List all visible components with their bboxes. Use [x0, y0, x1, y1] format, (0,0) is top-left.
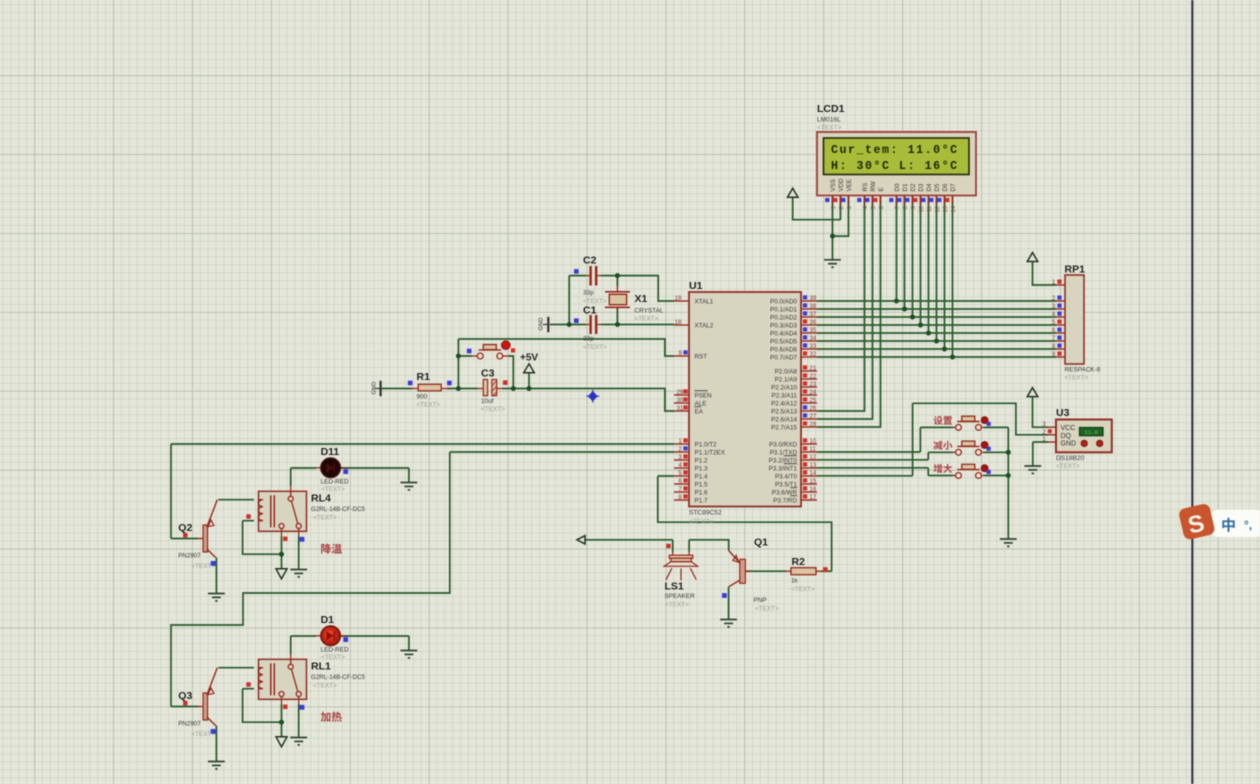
svg-text:P0.4/AD4: P0.4/AD4 — [770, 330, 797, 337]
svg-text:P0.7/AD7: P0.7/AD7 — [770, 354, 797, 361]
svg-text:27: 27 — [810, 414, 817, 420]
svg-text:PSEN: PSEN — [695, 392, 713, 399]
wire RP1 pin1 to power — [1033, 262, 1057, 285]
junction C1-crystal — [615, 322, 620, 327]
svg-text:P3.0/RXD: P3.0/RXD — [769, 441, 797, 448]
svg-text:VCC: VCC — [1061, 425, 1076, 432]
wire terminal to LS1 left — [585, 540, 673, 552]
svg-text:26: 26 — [810, 406, 817, 412]
wire R2 right lead wire — [821, 570, 832, 572]
svg-text:P1.3: P1.3 — [695, 465, 708, 472]
svg-text:C1: C1 — [583, 305, 597, 317]
svg-text:30: 30 — [677, 398, 684, 404]
svg-text:12: 12 — [810, 455, 817, 461]
svg-text:8: 8 — [903, 206, 909, 209]
GND terminal left of C1 — [539, 317, 550, 332]
svg-text:31: 31 — [677, 406, 684, 412]
svg-text:P1.5: P1.5 — [695, 481, 708, 488]
U1 right pin names — [769, 298, 798, 504]
wire RL4 common to D11 row — [290, 468, 292, 486]
svg-text:U1: U1 — [689, 280, 703, 292]
svg-text:EA: EA — [695, 408, 704, 415]
svg-text:D7: D7 — [950, 183, 957, 191]
svg-text:Q3: Q3 — [178, 690, 192, 702]
svg-text:24: 24 — [810, 390, 817, 396]
svg-text:<TEXT>: <TEXT> — [481, 406, 505, 413]
wire LCD E to P2.7 — [817, 196, 881, 427]
svg-text:7: 7 — [895, 206, 901, 209]
svg-text:11: 11 — [810, 447, 817, 453]
svg-text:<TEXT>: <TEXT> — [321, 654, 345, 661]
svg-text:PNP: PNP — [754, 597, 767, 604]
wire key1 to ground rail — [984, 427, 1008, 538]
svg-text:GND: GND — [539, 318, 545, 331]
wire P1.0 to Q2 base — [171, 444, 674, 539]
wire D1 row to ground — [291, 636, 409, 650]
svg-text:P1.0/T2: P1.0/T2 — [695, 441, 718, 448]
ground keypad rail ground — [1000, 539, 1017, 546]
svg-text:GND: GND — [372, 382, 378, 395]
svg-text:P2.7/A15: P2.7/A15 — [771, 424, 797, 431]
IC U1 STC89C52 body — [689, 280, 801, 526]
wire reset button row — [458, 356, 513, 389]
svg-text:VSS: VSS — [830, 179, 837, 191]
wire P3.2 to key2 — [817, 452, 953, 460]
ground Q3 emitter — [208, 762, 225, 769]
svg-text:C3: C3 — [481, 368, 495, 380]
svg-text:Q1: Q1 — [754, 537, 768, 549]
svg-text:10: 10 — [810, 439, 817, 445]
wire Q1 base to R2 — [746, 570, 786, 572]
transistor Q2 PN2907 (PNP) — [178, 500, 217, 570]
transistor Q1 PNP — [722, 537, 779, 613]
svg-text:LED-RED: LED-RED — [321, 647, 349, 654]
ground below RL4 — [290, 570, 307, 577]
watermark logo — [1178, 503, 1260, 541]
svg-text:15: 15 — [810, 479, 817, 485]
wire U3 VCC to power — [1033, 397, 1049, 427]
svg-text:RW: RW — [870, 181, 877, 191]
capacitor C2 — [574, 255, 607, 306]
junction P0.6/D6 — [942, 347, 947, 352]
svg-text:Q2: Q2 — [178, 522, 192, 534]
svg-text:21: 21 — [810, 366, 817, 372]
svg-text:LCD1: LCD1 — [817, 103, 845, 115]
svg-text:14: 14 — [951, 205, 957, 212]
U3 pins — [1042, 422, 1056, 443]
svg-text:P2.6/A14: P2.6/A14 — [771, 416, 797, 423]
wire RL4 contact to terminal — [281, 536, 283, 569]
svg-text:XTAL2: XTAL2 — [695, 322, 714, 329]
svg-text:DQ: DQ — [1061, 433, 1072, 440]
svg-text:16: 16 — [810, 487, 817, 493]
junction P0.2/D2 — [910, 315, 915, 320]
svg-text:STC89C52: STC89C52 — [689, 510, 722, 517]
svg-text:<TEXT>: <TEXT> — [689, 519, 714, 526]
junction P0.7/D7 — [950, 355, 955, 360]
svg-text:PN2907: PN2907 — [178, 721, 201, 728]
svg-text:5: 5 — [871, 206, 877, 209]
svg-text:CRYSTAL: CRYSTAL — [635, 308, 664, 315]
svg-text:36: 36 — [810, 320, 817, 326]
wire Q1 collector to ground — [728, 587, 730, 619]
svg-text:<TEXT>: <TEXT> — [817, 124, 842, 131]
svg-text:D3: D3 — [918, 183, 925, 191]
svg-text:<TEXT>: <TEXT> — [791, 586, 815, 593]
svg-text:D0: D0 — [894, 183, 901, 191]
wire LCD RS to P2.5 — [817, 196, 865, 411]
transistor Q3 PN2907 (PNP) — [178, 668, 217, 738]
svg-text:GND: GND — [1061, 441, 1077, 448]
svg-text:18: 18 — [675, 320, 682, 326]
svg-text:<TEXT>: <TEXT> — [417, 402, 441, 409]
junction P0.4/D4 — [926, 331, 931, 336]
LCD1 pin stubs and numbers — [825, 196, 957, 213]
+5V power terminal — [520, 353, 538, 373]
svg-text:XTAL1: XTAL1 — [695, 298, 714, 305]
push button SW set — [934, 416, 991, 430]
svg-text:P0.5/AD5: P0.5/AD5 — [770, 338, 797, 345]
wire P3.4 to U3 DQ — [817, 403, 1048, 476]
svg-text:P0.1/AD1: P0.1/AD1 — [770, 306, 797, 313]
svg-text:P0.2/AD2: P0.2/AD2 — [770, 314, 797, 321]
ground below LCD — [824, 260, 841, 267]
speaker LS1 — [664, 544, 697, 609]
resistor pack RP1 RESPACK-8 — [1065, 264, 1101, 382]
svg-text:35: 35 — [810, 328, 817, 334]
svg-text:17: 17 — [810, 495, 817, 501]
svg-text:37: 37 — [810, 312, 817, 318]
wire key2 right — [984, 451, 1008, 453]
svg-text:10uf: 10uf — [481, 398, 494, 405]
svg-text:1: 1 — [831, 206, 837, 209]
svg-text:P3.3/INT1: P3.3/INT1 — [769, 465, 798, 472]
push button (reset) — [467, 341, 515, 359]
wire Q3 emitter to ground — [215, 726, 217, 762]
svg-text:E: E — [878, 187, 885, 191]
wire RL1 contact to ground — [298, 704, 300, 737]
svg-text:PN2907: PN2907 — [178, 553, 201, 560]
svg-text:D2: D2 — [910, 183, 917, 191]
wire reset net vertical — [457, 339, 459, 389]
LED D1 LED-RED — [316, 614, 349, 661]
svg-text:13: 13 — [810, 463, 817, 469]
svg-text:13: 13 — [943, 206, 949, 212]
svg-text:RL4: RL4 — [311, 493, 331, 505]
wire crystal vertical links — [616, 276, 618, 325]
wire +5V stem — [528, 373, 530, 389]
junction +5V node — [527, 386, 532, 391]
svg-text:P3.7/RD: P3.7/RD — [773, 497, 797, 504]
resistor R1 — [408, 371, 452, 409]
svg-text:12: 12 — [935, 206, 941, 212]
LED D11 LED-RED — [316, 446, 349, 493]
origin marker — [586, 390, 599, 403]
svg-text:+5V: +5V — [520, 353, 538, 364]
junction C1 left — [567, 322, 572, 327]
U1 right pins with numbers — [801, 295, 817, 501]
wire RL1 common to D1 row — [290, 636, 292, 654]
svg-text:RESPACK-8: RESPACK-8 — [1065, 367, 1101, 374]
svg-text:VDD: VDD — [838, 178, 845, 192]
capacitor C3 (electrolytic) — [478, 368, 508, 414]
svg-text:<TEXT>: <TEXT> — [583, 344, 607, 351]
wire RL4 coil return — [243, 521, 282, 555]
svg-text:R2: R2 — [792, 556, 806, 568]
wire R1 to C3 to EA row — [447, 389, 674, 412]
svg-text:LED-RED: LED-RED — [321, 479, 349, 486]
svg-text:P0.6/AD6: P0.6/AD6 — [770, 346, 797, 353]
wire Q2 collector to RL4 coil — [218, 499, 254, 501]
svg-text:<TEXT>: <TEXT> — [755, 606, 779, 613]
resistor R2 — [786, 556, 828, 593]
svg-text:900: 900 — [417, 394, 428, 401]
svg-text:D5: D5 — [934, 183, 941, 191]
svg-text:P1.1/T2EX: P1.1/T2EX — [695, 449, 726, 456]
LCD1 pin names — [830, 178, 957, 192]
svg-text:22: 22 — [810, 374, 817, 380]
svg-text:P1.2: P1.2 — [695, 457, 708, 464]
junction RL4 return — [279, 552, 284, 557]
svg-text:25: 25 — [810, 398, 817, 404]
junction key rail B — [1006, 473, 1011, 478]
svg-text:D4: D4 — [926, 183, 933, 191]
svg-text:Cur_tem: 11.0°C: Cur_tem: 11.0°C — [831, 144, 959, 157]
junction reset-key left — [456, 354, 461, 359]
svg-text:RL1: RL1 — [311, 661, 331, 673]
power terminal LCD VDD power arrow — [787, 188, 798, 197]
wire LCD VDD to +5V terminal — [793, 196, 841, 220]
wire D11 row to ground — [291, 468, 409, 482]
junction C3 right — [511, 386, 516, 391]
svg-text:RS: RS — [862, 183, 869, 192]
svg-text:RST: RST — [695, 353, 708, 360]
wire LCD VSS/VEE to ground — [833, 196, 849, 260]
power terminal U3 power arrow — [1027, 388, 1038, 397]
svg-text:1k: 1k — [791, 578, 799, 585]
svg-text:33: 33 — [810, 344, 817, 350]
wire RL1 contact to terminal — [281, 704, 283, 737]
U1 left pins with numbers — [674, 296, 689, 501]
svg-text:<TEXT>: <TEXT> — [313, 514, 337, 521]
svg-text:33p: 33p — [583, 336, 594, 343]
junction key rail A — [1006, 450, 1011, 455]
svg-text:SPEAKER: SPEAKER — [665, 593, 696, 600]
wire RL1 coil return — [243, 689, 282, 723]
sensor U3 DS18B20 — [1056, 407, 1112, 470]
junction P0.5/D5 — [934, 339, 939, 344]
ground Q1 collector — [720, 620, 737, 627]
svg-text:D1: D1 — [902, 183, 909, 191]
wire GND to R1 — [382, 388, 412, 390]
svg-text:29: 29 — [677, 390, 684, 396]
svg-text:P1.4: P1.4 — [695, 473, 708, 480]
svg-text:VEE: VEE — [846, 179, 853, 191]
svg-text:X1: X1 — [635, 293, 648, 305]
svg-text:<TEXT>: <TEXT> — [635, 316, 659, 323]
junction R1-C3 — [456, 386, 461, 391]
wire Q3 collector to RL1 coil — [218, 667, 254, 669]
svg-text:<TEXT>: <TEXT> — [321, 486, 345, 493]
svg-text:39: 39 — [810, 296, 817, 302]
wire Q2 emitter to ground — [215, 558, 217, 594]
svg-text:LS1: LS1 — [665, 581, 684, 593]
relay RL4 G2RL-14B-CF-DC5 — [246, 486, 365, 554]
wire P3.3 to key3 — [817, 468, 953, 476]
svg-text:<TEXT>: <TEXT> — [313, 682, 337, 689]
wire LS1 right to Q1 — [689, 540, 729, 552]
svg-text:6: 6 — [879, 206, 885, 209]
svg-text:<TEXT>: <TEXT> — [1056, 463, 1080, 470]
svg-text:32: 32 — [810, 352, 817, 358]
ground D11 cathode — [401, 483, 418, 490]
terminal below RL4 — [276, 569, 287, 579]
svg-text:<TEXT>: <TEXT> — [1065, 375, 1089, 382]
svg-text:D6: D6 — [942, 183, 949, 191]
sheet border line — [1191, 0, 1193, 784]
svg-text:D11: D11 — [321, 446, 340, 458]
svg-text:14: 14 — [810, 471, 817, 477]
junction P0.1/D1 — [902, 307, 907, 312]
svg-text:LM016L: LM016L — [817, 117, 841, 124]
svg-text:D1: D1 — [321, 614, 335, 626]
svg-text:G2RL-14B-CF-DC5: G2RL-14B-CF-DC5 — [311, 674, 366, 681]
LCD LCD1 LM016L — [817, 103, 976, 196]
svg-text:9: 9 — [911, 206, 917, 209]
svg-text:19: 19 — [675, 296, 682, 302]
junction LCD VSS-VEE — [830, 234, 835, 239]
svg-text:RP1: RP1 — [1065, 264, 1086, 276]
ground D1 cathode — [401, 651, 418, 658]
U1 left pin names — [695, 298, 726, 504]
svg-text:38: 38 — [810, 304, 817, 310]
svg-text:2: 2 — [839, 206, 845, 209]
svg-text:U3: U3 — [1056, 407, 1070, 419]
wire P0.0-P0.7 rows to RP1 — [817, 301, 1056, 357]
RP1 pins — [1052, 280, 1065, 359]
wire P3.1 to key1 — [817, 427, 953, 452]
svg-text:33p: 33p — [583, 290, 594, 297]
junction P0.0/D0 — [894, 299, 899, 304]
svg-text:P0.0/AD0: P0.0/AD0 — [770, 298, 797, 305]
push button SW minus — [934, 441, 991, 455]
svg-text:11.0: 11.0 — [1084, 429, 1098, 436]
svg-text:G2RL-14B-CF-DC5: G2RL-14B-CF-DC5 — [311, 506, 366, 513]
svg-text:R1: R1 — [417, 371, 431, 383]
svg-text:P2.2/A10: P2.2/A10 — [771, 384, 797, 391]
svg-text:P0.3/AD3: P0.3/AD3 — [770, 322, 797, 329]
ground U3 ground — [1024, 466, 1041, 473]
wire XTAL2 row / GND to C1 to chip — [550, 324, 674, 326]
svg-text:P2.5/A13: P2.5/A13 — [771, 408, 797, 415]
relay RL1 G2RL-14B-CF-DC5 — [246, 654, 365, 722]
wire C2 left drop — [568, 276, 570, 325]
wire RL4 contact to ground — [298, 536, 300, 569]
svg-text:P2.0/A8: P2.0/A8 — [775, 368, 798, 375]
ground below RL1 — [290, 738, 307, 745]
push button SW plus — [934, 464, 991, 478]
svg-text:28: 28 — [810, 422, 817, 428]
svg-text:P3.4/T0: P3.4/T0 — [775, 473, 798, 480]
wire LCD RW to P2.6 — [817, 196, 873, 419]
input terminal arrow at speaker wire — [577, 536, 585, 544]
wire LCD D0-D7 columns — [897, 196, 953, 357]
svg-text:P1.7: P1.7 — [695, 497, 708, 504]
terminal below RL1 — [276, 737, 287, 747]
svg-text:DS18B20: DS18B20 — [1056, 455, 1085, 462]
svg-text:10: 10 — [919, 206, 925, 212]
svg-text:11: 11 — [927, 206, 933, 212]
junction C2-crystal — [615, 273, 620, 278]
wire C2 row to XTAL1 — [569, 276, 674, 301]
GND terminal left of R1 — [372, 381, 383, 396]
capacitor C1 — [574, 305, 607, 352]
svg-text:P1.6: P1.6 — [695, 489, 708, 496]
wire P1.4 to R2 — [658, 476, 832, 571]
wire key3 right — [984, 475, 1008, 477]
svg-text:P2.1/A9: P2.1/A9 — [775, 376, 798, 383]
svg-text:23: 23 — [810, 382, 817, 388]
svg-text:H: 30°C L: 16°C: H: 30°C L: 16°C — [831, 160, 959, 173]
crystal X1 — [605, 286, 664, 323]
ground Q2 emitter — [208, 594, 225, 601]
svg-text:°,: °, — [1244, 518, 1252, 532]
svg-text:P2.3/A11: P2.3/A11 — [772, 392, 798, 399]
wire U3 GND wire — [1033, 442, 1048, 466]
junction P0.3/D3 — [918, 323, 923, 328]
wire P1.1 to Q3 base — [171, 452, 674, 707]
svg-text:C2: C2 — [583, 255, 597, 267]
junction RL1 return — [279, 720, 284, 725]
svg-text:34: 34 — [810, 336, 817, 342]
svg-text:3: 3 — [847, 206, 853, 209]
svg-text:P2.4/A12: P2.4/A12 — [771, 400, 797, 407]
svg-text:<TEXT>: <TEXT> — [665, 602, 689, 609]
wire reset top wire to RST — [458, 339, 674, 356]
power terminal RP1 power arrow — [1027, 253, 1038, 262]
